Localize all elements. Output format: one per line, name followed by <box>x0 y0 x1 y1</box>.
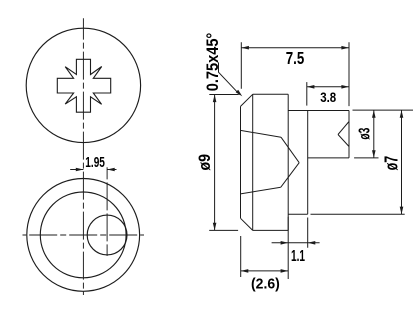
svg-text:7.5: 7.5 <box>286 48 305 68</box>
dimension ø9 line with arrows <box>214 95 216 231</box>
front view outer circle (head ø9) <box>26 28 140 142</box>
bore cone lower edge <box>338 135 349 147</box>
hole bottom edge (ø3 bore) <box>308 157 349 159</box>
chamfer leader line 0.75x45 <box>219 62 240 94</box>
svg-text:ø7: ø7 <box>382 156 402 171</box>
dimension 1.95 dimension line with outside arrows <box>70 169 116 171</box>
dimension 1.1: extension lines <box>288 217 308 279</box>
dimension 7.5 line with arrows <box>241 47 349 49</box>
head bottom edge <box>253 229 289 231</box>
back view outer circle (ø9) <box>27 179 140 292</box>
recess profile to apex <box>281 137 299 163</box>
back view inner circle (ø7 stem) <box>40 192 126 278</box>
stem top edge <box>288 110 349 112</box>
horizontal centerline of back view <box>23 234 145 236</box>
svg-text:1.1: 1.1 <box>291 248 305 265</box>
dimension (2.6) line with arrows <box>241 270 289 272</box>
svg-text:1.95: 1.95 <box>85 155 105 171</box>
svg-text:ø9: ø9 <box>195 154 214 171</box>
svg-text:ø3: ø3 <box>357 128 374 140</box>
dimension ø3 line with arrows <box>373 110 375 158</box>
dimension ø9: extension lines <box>209 95 239 231</box>
dimension 3.8: left extension line <box>306 82 308 106</box>
svg-text:3.8: 3.8 <box>320 89 336 105</box>
dimension 3.8 line with arrows <box>307 86 349 88</box>
dimension ø3: top extension line <box>353 109 414 111</box>
extension line through small hole center <box>106 167 108 256</box>
hole bottom vertical line <box>307 111 309 215</box>
dimension ø7 line with arrows <box>401 110 403 214</box>
dimension 7.5: extension lines <box>241 42 349 106</box>
pozidriv cross recess outline <box>57 59 110 112</box>
back view small circle (ø3 offset hole) <box>87 215 127 255</box>
stem bottom edge <box>288 213 308 215</box>
dimension ø7: bottom extension line <box>311 213 405 215</box>
dimension (2.6): left extension line <box>240 236 242 277</box>
dimension ø3: bottom extension line <box>354 157 378 159</box>
svg-text:0.75x45°: 0.75x45° <box>203 33 222 92</box>
chamfer inner vertical edge <box>252 94 254 230</box>
recess profile from apex down <box>281 163 299 188</box>
head right edge <box>287 94 289 230</box>
vertical centerline through both left views <box>82 18 84 295</box>
section view: head top edge <box>253 93 289 95</box>
svg-text:(2.6): (2.6) <box>251 275 280 292</box>
head bottom chamfer <box>241 218 253 230</box>
recess profile lower line <box>241 187 281 194</box>
head top chamfer 0.75x45 <box>241 94 253 106</box>
bore cone upper edge <box>338 122 349 135</box>
recess profile upper line <box>241 130 282 137</box>
dimension 1.1 line with outside arrows <box>272 242 320 244</box>
head left edge <box>240 106 242 218</box>
bore right end edge <box>348 111 350 158</box>
